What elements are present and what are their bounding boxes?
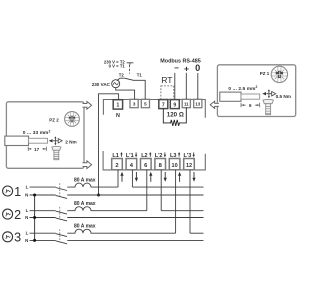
Modbus wire to terminal 9 bbox=[174, 73, 176, 100]
Modbus wire to terminal 13 bbox=[197, 73, 199, 99]
terminal 13 bbox=[194, 99, 202, 107]
arrow down at terminal 8 bbox=[164, 172, 167, 182]
svg-text:2 Nm: 2 Nm bbox=[65, 139, 76, 144]
PZ2 info box bbox=[6, 102, 84, 169]
arrow up at terminal 2 bbox=[120, 172, 123, 182]
svg-text:11: 11 bbox=[184, 101, 189, 106]
svg-text:2: 2 bbox=[115, 163, 118, 169]
phase 1 breaker blades bbox=[56, 188, 67, 199]
phase 1 breaker coil humps bbox=[67, 183, 118, 187]
terminal 3 bbox=[130, 99, 138, 107]
cable insulation PZ2 bbox=[5, 136, 29, 145]
resistor R1 120 ohm bbox=[163, 107, 186, 126]
phase 3 breaker link dashed bbox=[59, 229, 61, 242]
svg-text:L'1: L'1 bbox=[126, 153, 134, 159]
label 0 ... 33 mm2 bbox=[23, 129, 51, 136]
phase 3 label L bbox=[26, 231, 29, 236]
terminal 11 bbox=[182, 99, 190, 107]
svg-text:T1: T1 bbox=[137, 72, 143, 77]
svg-text:0 ... 2.5 mm2: 0 ... 2.5 mm2 bbox=[228, 85, 257, 92]
terminal 12 bbox=[184, 159, 195, 170]
svg-text:5: 5 bbox=[144, 101, 147, 106]
svg-text:L'2: L'2 bbox=[155, 153, 163, 159]
svg-text:PZ 2: PZ 2 bbox=[49, 118, 59, 123]
device outline bbox=[103, 100, 205, 170]
label 230 VAC bbox=[92, 82, 111, 87]
phase 3 breaker blades bbox=[56, 234, 67, 244]
phase 2 label L bbox=[26, 208, 29, 213]
svg-text:9: 9 bbox=[173, 102, 176, 108]
terminal 9 bbox=[170, 100, 179, 109]
junction dot aux neutral bbox=[97, 194, 100, 197]
label Modbus RS-485 bbox=[160, 58, 200, 64]
svg-text:12: 12 bbox=[186, 163, 192, 169]
arrow down at terminal 4 bbox=[135, 172, 138, 182]
pozidriv bit icon PZ2 bbox=[65, 112, 80, 127]
phase 2 L wire (supply side) bbox=[30, 210, 56, 212]
label plus bbox=[184, 64, 189, 74]
svg-text:+: + bbox=[184, 64, 189, 74]
arrow up at terminal 10 bbox=[178, 172, 181, 182]
svg-text:0.5 Nm: 0.5 Nm bbox=[276, 94, 291, 99]
label 120 ohm bbox=[167, 112, 184, 119]
label 230 V = T2 bbox=[104, 60, 126, 65]
selector actuator dashed link bbox=[128, 65, 130, 74]
Modbus wire to terminal 11 bbox=[185, 73, 187, 100]
terminal screw icon PZ1 bbox=[263, 99, 274, 114]
label 0 ... 2.5 mm2 bbox=[228, 85, 257, 92]
svg-text:7: 7 bbox=[162, 102, 165, 108]
svg-text:10: 10 bbox=[172, 163, 178, 169]
svg-text:3: 3 bbox=[14, 231, 21, 245]
svg-text:0 V = T1: 0 V = T1 bbox=[109, 64, 126, 69]
wire terminal 12 drop bbox=[189, 170, 191, 233]
svg-text:N: N bbox=[25, 193, 28, 198]
label minus bbox=[174, 64, 179, 73]
svg-text:L1: L1 bbox=[112, 153, 118, 159]
svg-text:2: 2 bbox=[14, 208, 21, 222]
svg-text:0 ... 33 mm2: 0 ... 33 mm2 bbox=[23, 129, 51, 136]
wire terminal 4 drop bbox=[131, 170, 133, 187]
label T2 (contact) bbox=[119, 72, 125, 77]
terminal 6 bbox=[141, 159, 152, 170]
svg-text:230 VAC: 230 VAC bbox=[92, 82, 111, 87]
terminal 8 bbox=[155, 159, 166, 170]
label RT bbox=[161, 75, 173, 85]
wire terminal 8 drop bbox=[160, 170, 162, 211]
RT jumper dashed box bbox=[161, 86, 174, 99]
terminal 4 bbox=[126, 159, 137, 170]
phase 2 source bbox=[3, 209, 13, 219]
label 0.5 Nm bbox=[276, 94, 291, 99]
cable insulation PZ1 bbox=[220, 92, 241, 101]
phase 3 breaker coil humps bbox=[67, 229, 175, 233]
PZ2 upper arrow to device bbox=[83, 101, 92, 109]
svg-text:L3: L3 bbox=[170, 153, 176, 159]
selector common mark bbox=[127, 63, 134, 65]
svg-text:L2: L2 bbox=[141, 153, 147, 159]
tariff selector switch bbox=[117, 78, 145, 99]
svg-text:RT: RT bbox=[161, 75, 173, 85]
wire terminal 1 (N) to phase 1 neutral bbox=[99, 94, 119, 195]
svg-text:L: L bbox=[26, 185, 29, 190]
phase 3 N wire bbox=[30, 239, 204, 241]
wire AC source to terminal 3 bbox=[116, 88, 135, 100]
svg-text:120 Ω: 120 Ω bbox=[167, 112, 184, 119]
phase 2 breaker coil humps bbox=[67, 207, 147, 211]
label N under terminal 1 bbox=[116, 113, 120, 119]
terminal 2 bbox=[112, 159, 123, 170]
phase 2 breaker blades bbox=[56, 211, 67, 221]
terminal screw icon PZ2 bbox=[52, 146, 61, 159]
svg-text:80 A max: 80 A max bbox=[74, 201, 96, 207]
torque screwdriver icon PZ2 bbox=[49, 136, 62, 145]
PZ1 arrow to device bbox=[210, 101, 219, 108]
phase 3 L wire (supply side) bbox=[30, 232, 56, 234]
label 0 bbox=[195, 63, 200, 73]
svg-text:80 A max: 80 A max bbox=[74, 224, 96, 230]
svg-text:N: N bbox=[25, 215, 28, 220]
phase 2 number bbox=[14, 208, 21, 222]
phase 2 label N bbox=[25, 215, 28, 220]
svg-text:1: 1 bbox=[14, 185, 21, 199]
PZ2 lower arrow to device bbox=[83, 161, 92, 169]
wire terminal 2 drop bbox=[117, 170, 119, 187]
phase 3 source bbox=[3, 232, 13, 242]
terminal 10 bbox=[169, 159, 180, 170]
phase 1 L out wire (load side) bbox=[132, 186, 203, 188]
pozidriv bit icon PZ1 bbox=[271, 66, 287, 82]
svg-text:L'3: L'3 bbox=[184, 153, 192, 159]
svg-text:T2: T2 bbox=[119, 72, 125, 77]
svg-text:1: 1 bbox=[117, 103, 120, 109]
svg-text:PZ 1: PZ 1 bbox=[260, 71, 270, 76]
phase 2 label 80 A max bbox=[74, 201, 96, 207]
arrow up at terminal 6 bbox=[149, 172, 152, 182]
cable conductor PZ2 bbox=[29, 138, 48, 143]
wire terminal 10 drop bbox=[175, 170, 177, 233]
junction dot N1 bbox=[33, 194, 36, 197]
terminal 5 bbox=[141, 99, 149, 107]
terminal 1 bbox=[113, 100, 122, 109]
phase 1 L wire (supply side) bbox=[30, 186, 56, 188]
label 0 V = T1 bbox=[109, 64, 126, 69]
torque screwdriver icon PZ1 bbox=[262, 89, 275, 98]
phase 3 L out wire (load side) bbox=[190, 232, 204, 234]
wire terminal 6 drop bbox=[146, 170, 148, 211]
svg-text:N: N bbox=[25, 238, 28, 243]
svg-text:L: L bbox=[26, 208, 29, 213]
phase 3 number bbox=[14, 231, 21, 245]
arrow down at terminal 12 bbox=[192, 172, 195, 182]
svg-text:N: N bbox=[116, 113, 120, 119]
terminal labels L1/L'1/L2/L'2/L3/L'3 bbox=[112, 152, 195, 159]
label T1 (contact) bbox=[137, 72, 143, 77]
cable conductor PZ1 bbox=[241, 94, 260, 99]
phase 2 breaker link dashed bbox=[59, 207, 61, 220]
phase 2 N wire bbox=[30, 217, 204, 219]
phase 1 N wire bbox=[30, 194, 204, 196]
phase 3 label 80 A max bbox=[74, 224, 96, 230]
AC source 230 VAC bbox=[112, 80, 120, 88]
strip length dimension 17 bbox=[28, 147, 46, 151]
label PZ 1 bbox=[260, 71, 270, 76]
svg-text:13: 13 bbox=[195, 101, 200, 106]
svg-text:80 A max: 80 A max bbox=[74, 178, 96, 184]
strip length dimension 6 bbox=[241, 103, 260, 107]
phase 1 label N bbox=[25, 193, 28, 198]
phase 1 number bbox=[14, 185, 21, 199]
label 2 Nm bbox=[65, 139, 76, 144]
phase 2 L out wire (load side) bbox=[161, 210, 203, 212]
phase 1 label 80 A max bbox=[74, 178, 96, 184]
phase 3 label N bbox=[25, 238, 28, 243]
svg-text:0: 0 bbox=[195, 63, 200, 73]
junction dot N3 bbox=[33, 239, 36, 242]
neutral bus bbox=[34, 195, 36, 240]
svg-text:3: 3 bbox=[133, 101, 136, 106]
svg-text:−: − bbox=[174, 64, 179, 73]
label PZ 2 bbox=[49, 118, 59, 123]
phase 1 breaker link dashed bbox=[59, 183, 61, 197]
PZ1 info box bbox=[217, 65, 295, 117]
terminal 7 bbox=[159, 100, 168, 109]
phase 1 label L bbox=[26, 185, 29, 190]
junction dot N2 bbox=[33, 216, 36, 219]
svg-text:17: 17 bbox=[34, 147, 40, 152]
phase 1 source bbox=[3, 186, 13, 196]
svg-text:L: L bbox=[26, 231, 29, 236]
